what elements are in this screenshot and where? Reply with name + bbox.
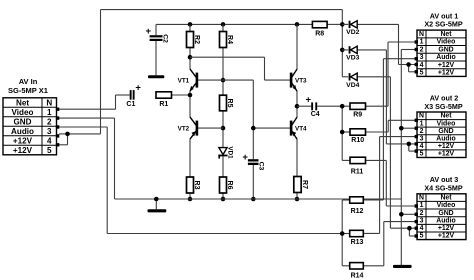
wire VT3 collector to rail xyxy=(296,24,298,69)
resistor R14 xyxy=(350,263,364,280)
svg-text:VD1: VD1 xyxy=(227,146,234,159)
resistor R9 xyxy=(350,103,366,118)
wire GND net from AV In pin2 down to ground bus xyxy=(59,118,115,199)
svg-text:Video: Video xyxy=(12,108,34,117)
wire VD3 to X3 pins 4,5 (+12V) xyxy=(342,50,416,151)
resistor R6 xyxy=(220,177,233,193)
wire audio column for R12 R13 R14 (x=342.2) xyxy=(340,200,350,266)
wire VT3/VT4 output column and R7 (x=297) xyxy=(295,91,300,201)
svg-text:N: N xyxy=(419,31,424,38)
wire C4 output node xyxy=(297,105,342,107)
svg-text:R5: R5 xyxy=(226,99,233,108)
wire VT1 base to node and down to VT4 base / C3 xyxy=(198,80,290,201)
svg-text:N: N xyxy=(419,195,424,202)
svg-text:+12V: +12V xyxy=(13,146,33,155)
svg-text:GND: GND xyxy=(438,128,453,135)
transistor VT3 (NPN, facing right) xyxy=(290,69,307,91)
svg-text:GND: GND xyxy=(438,210,453,217)
svg-text:Net: Net xyxy=(440,31,452,38)
resistor R13 xyxy=(350,230,364,246)
svg-text:R12: R12 xyxy=(351,208,364,215)
resistor R11 xyxy=(350,157,366,175)
resistor R8 xyxy=(312,21,327,37)
svg-text:X4 SG-5MP: X4 SG-5MP xyxy=(424,183,463,192)
resistor R4 xyxy=(220,32,233,48)
svg-text:C4: C4 xyxy=(311,111,320,118)
diode VD4 xyxy=(346,73,359,89)
svg-text:C2: C2 xyxy=(162,34,169,43)
wire VT1-VT2 emitter column with R1 node (x=190) xyxy=(172,91,193,201)
wire R9 to X2 pin1 video xyxy=(366,42,417,106)
connector X1 AV In (SG-5MP) xyxy=(3,77,57,155)
zener diode VD1 xyxy=(218,146,233,159)
connector X2 AV out 1 (SG-5MP) xyxy=(417,11,466,76)
svg-text:R7: R7 xyxy=(301,180,308,189)
wire R12 to X2 pin3 audio xyxy=(363,59,416,200)
wire VT1 collector node to VT3 base xyxy=(190,57,290,80)
svg-text:GND: GND xyxy=(14,117,32,126)
svg-text:R6: R6 xyxy=(226,181,233,190)
wire R10 to X3 pin1 video xyxy=(366,120,417,132)
svg-text:C3: C3 xyxy=(258,162,265,171)
X2 pin contacts 1-5 xyxy=(415,40,418,73)
svg-text:X3 SG-5MP: X3 SG-5MP xyxy=(424,102,463,111)
svg-text:3: 3 xyxy=(420,135,424,142)
svg-text:Audio: Audio xyxy=(436,135,456,142)
svg-text:C1: C1 xyxy=(126,101,135,108)
wire video input net: AV In pin1 to C1 xyxy=(59,95,130,109)
X1 pin contacts 1-5 xyxy=(56,108,59,147)
svg-text:5: 5 xyxy=(47,146,52,155)
wire internal supply rail (top, y=24.4) xyxy=(156,22,345,27)
wire +12V net from AV In pins 4,5 up and across the top xyxy=(59,10,342,145)
svg-text:1: 1 xyxy=(420,120,424,127)
X3 pin contacts 1-5 xyxy=(415,119,418,153)
wire video output bus (x=342.2) feeding R9 R10 R11 xyxy=(340,104,350,161)
diode VD2 xyxy=(346,21,359,36)
ground symbol on main ground bus xyxy=(148,209,167,212)
svg-text:2: 2 xyxy=(420,46,424,53)
svg-text:1: 1 xyxy=(420,39,424,46)
svg-text:N: N xyxy=(46,98,52,107)
svg-text:VD2: VD2 xyxy=(346,29,359,36)
capacitor C1 (input coupling, polarized) xyxy=(126,83,141,108)
svg-text:+: + xyxy=(242,152,248,163)
wire VT2 base to R5/VD1 node xyxy=(198,127,223,129)
svg-text:Video: Video xyxy=(437,120,456,127)
ground symbol under C2 xyxy=(148,75,164,78)
resistor R7 xyxy=(294,177,308,193)
svg-text:R1: R1 xyxy=(159,101,168,108)
capacitor C2 (supply filter, polarized) xyxy=(146,26,169,43)
svg-text:R11: R11 xyxy=(351,168,364,175)
ground symbol at output connector ground xyxy=(393,265,412,268)
diode VD3 xyxy=(346,46,359,61)
svg-text:+12V: +12V xyxy=(438,70,455,77)
svg-text:VT1: VT1 xyxy=(178,77,190,84)
svg-text:4: 4 xyxy=(420,225,424,232)
svg-text:R14: R14 xyxy=(351,272,364,279)
svg-text:4: 4 xyxy=(420,143,424,150)
svg-text:+12V: +12V xyxy=(438,151,455,158)
svg-text:X2 SG-5MP: X2 SG-5MP xyxy=(424,20,463,29)
transistor VT2 (PNP, facing left) xyxy=(178,117,199,139)
svg-text:R9: R9 xyxy=(353,111,362,118)
svg-text:3: 3 xyxy=(47,127,52,136)
wire R4-R5-VD1-R6 column (x=223) xyxy=(221,24,226,201)
svg-text:+12V: +12V xyxy=(438,62,455,69)
svg-text:5: 5 xyxy=(420,70,424,77)
svg-text:VT2: VT2 xyxy=(178,125,190,132)
svg-text:3: 3 xyxy=(420,217,424,224)
svg-text:AV In: AV In xyxy=(19,77,38,86)
svg-text:Video: Video xyxy=(437,39,456,46)
svg-text:SG-5MP X1: SG-5MP X1 xyxy=(8,86,48,95)
svg-text:+: + xyxy=(146,26,152,37)
X4 pin contacts 1-5 xyxy=(415,204,418,237)
resistor R10 xyxy=(350,129,366,144)
wire VD4 to X4 pins 4,5 (+12V) xyxy=(342,77,416,236)
wire C2 leads xyxy=(155,24,157,75)
svg-text:R3: R3 xyxy=(193,181,200,190)
svg-text:Net: Net xyxy=(440,113,452,120)
resistor R12 xyxy=(350,197,364,215)
wire R14 to X4 pin3 audio xyxy=(363,222,416,266)
wire audio net from AV In pin3 along bottom to R12-R14 column xyxy=(59,127,342,234)
capacitor C4 (output coupling, polarized) xyxy=(306,95,320,119)
svg-text:VT3: VT3 xyxy=(295,77,307,84)
svg-text:+: + xyxy=(306,95,312,106)
svg-text:Audio: Audio xyxy=(436,54,456,61)
svg-text:Audio: Audio xyxy=(436,217,456,224)
wire R2 column / VT1 collector (x=190) xyxy=(188,24,193,69)
svg-text:2: 2 xyxy=(47,117,52,126)
svg-text:5: 5 xyxy=(420,151,424,158)
svg-text:Video: Video xyxy=(437,202,456,209)
svg-text:Net: Net xyxy=(440,195,452,202)
svg-text:Net: Net xyxy=(16,98,29,107)
wire VD2 to X2 pins 4,5 (+12V) xyxy=(340,24,417,71)
resistor R2 xyxy=(187,32,200,48)
svg-text:VT4: VT4 xyxy=(295,126,307,133)
capacitor C3 (base node decoupling, polarized) xyxy=(242,152,264,171)
svg-text:4: 4 xyxy=(47,136,52,145)
svg-text:2: 2 xyxy=(420,210,424,217)
svg-text:1: 1 xyxy=(47,108,52,117)
connector X4 AV out 3 (SG-5MP) xyxy=(417,175,466,240)
svg-text:R2: R2 xyxy=(193,35,200,44)
svg-text:2: 2 xyxy=(420,128,424,135)
svg-text:Audio: Audio xyxy=(11,127,34,136)
svg-text:R4: R4 xyxy=(226,35,233,44)
wire main ground bus (y=199) xyxy=(115,197,402,210)
svg-text:VD4: VD4 xyxy=(346,82,359,89)
wire R13 to X3 pin3 audio xyxy=(363,137,416,234)
svg-text:+12V: +12V xyxy=(438,225,455,232)
connector X3 AV out 2 (SG-5MP) xyxy=(417,93,466,157)
wire R11 to X4 pin1 video xyxy=(366,160,417,206)
resistor R5 xyxy=(220,95,233,111)
svg-text:R8: R8 xyxy=(315,30,324,37)
resistor R1 xyxy=(156,92,172,108)
transistor VT4 (PNP, facing right) xyxy=(290,117,307,139)
svg-text:4: 4 xyxy=(420,62,424,69)
svg-text:+12V: +12V xyxy=(438,143,455,150)
svg-text:1: 1 xyxy=(420,202,424,209)
wire connector ground vertical (x=401.3) xyxy=(399,50,417,266)
svg-text:5: 5 xyxy=(420,233,424,240)
resistor R3 xyxy=(187,177,200,193)
svg-text:VD3: VD3 xyxy=(346,55,359,62)
svg-text:3: 3 xyxy=(420,54,424,61)
svg-text:+: + xyxy=(135,83,141,94)
svg-text:+12V: +12V xyxy=(13,136,33,145)
svg-text:N: N xyxy=(419,113,424,120)
svg-text:R13: R13 xyxy=(351,239,364,246)
transistor VT1 (NPN, facing left) xyxy=(178,69,199,91)
svg-text:+12V: +12V xyxy=(438,233,455,240)
svg-text:R10: R10 xyxy=(351,137,364,144)
svg-text:GND: GND xyxy=(438,46,453,53)
